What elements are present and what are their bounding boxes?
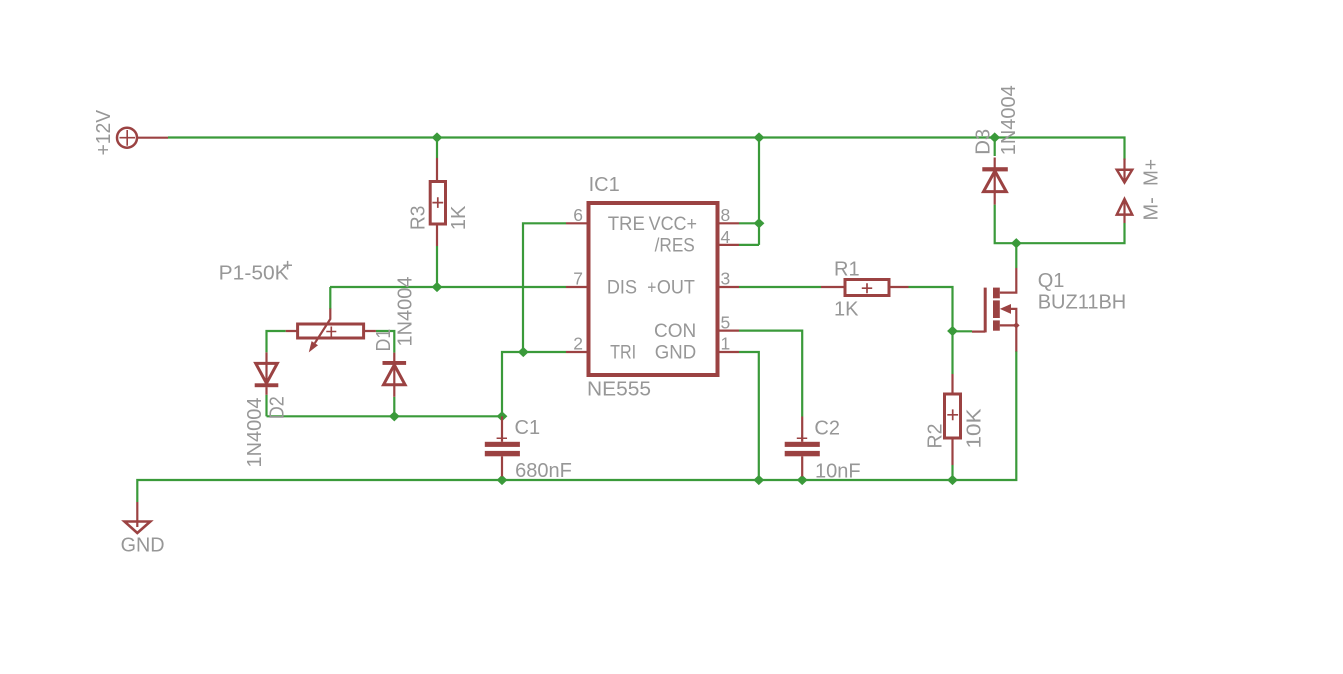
svg-text:6: 6 — [573, 205, 583, 225]
svg-text:M+: M+ — [1141, 159, 1163, 186]
svg-text:M-: M- — [1141, 197, 1163, 220]
svg-text:2: 2 — [573, 334, 583, 354]
svg-text:1N4004: 1N4004 — [244, 398, 266, 468]
svg-text:Q1: Q1 — [1038, 270, 1065, 292]
svg-text:TRI: TRI — [610, 343, 636, 364]
svg-text:C2: C2 — [814, 418, 840, 440]
svg-text:3: 3 — [721, 269, 731, 289]
svg-text:10nF: 10nF — [815, 460, 861, 482]
svg-text:C1: C1 — [515, 417, 541, 439]
svg-text:8: 8 — [721, 205, 731, 225]
svg-text:7: 7 — [573, 269, 583, 289]
svg-text:D1: D1 — [373, 329, 395, 352]
svg-text:10K: 10K — [964, 408, 986, 449]
svg-text:/RES: /RES — [655, 235, 695, 256]
svg-text:R2: R2 — [925, 424, 947, 449]
svg-text:1K: 1K — [448, 205, 470, 230]
svg-text:BUZ11BH: BUZ11BH — [1038, 292, 1127, 314]
svg-text:1: 1 — [721, 334, 731, 354]
svg-text:D2: D2 — [267, 396, 289, 419]
svg-text:OUT: OUT — [657, 278, 695, 299]
svg-text:CON: CON — [654, 321, 696, 342]
svg-text:D3: D3 — [973, 129, 995, 155]
svg-text:+: + — [647, 278, 656, 299]
svg-text:+12V: +12V — [93, 109, 115, 155]
svg-text:1N4004: 1N4004 — [998, 85, 1020, 155]
svg-text:GND: GND — [655, 343, 696, 364]
svg-text:DIS: DIS — [607, 278, 637, 299]
svg-text:5: 5 — [721, 312, 731, 332]
svg-text:R1: R1 — [834, 258, 860, 280]
svg-text:NE555: NE555 — [587, 379, 651, 401]
svg-text:VCC+: VCC+ — [649, 214, 697, 235]
svg-text:1N4004: 1N4004 — [395, 277, 417, 347]
svg-text:TRE: TRE — [608, 214, 645, 235]
svg-text:IC1: IC1 — [589, 174, 620, 196]
svg-text:GND: GND — [121, 534, 165, 556]
svg-text:4: 4 — [721, 227, 731, 247]
svg-text:R3: R3 — [407, 206, 429, 231]
svg-text:1K: 1K — [834, 299, 859, 321]
svg-text:680nF: 680nF — [515, 460, 572, 482]
svg-text:P1-50K: P1-50K — [219, 263, 290, 285]
